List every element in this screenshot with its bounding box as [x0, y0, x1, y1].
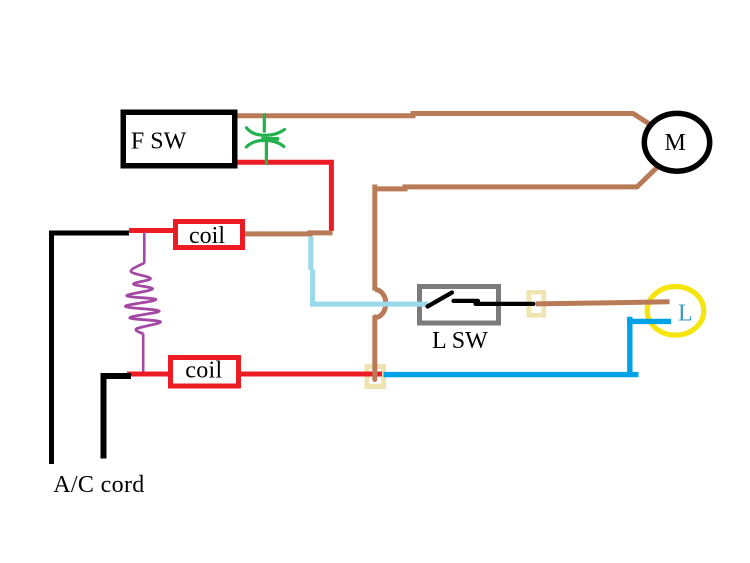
wire brown: hop bottom down into junction node	[372, 317, 377, 380]
junction node (tan square) joining red, brown and blue wires	[367, 367, 384, 387]
wire red: coil 2 to junction node	[239, 372, 382, 377]
wire lightblue: tap from coil1 lead down and right to L SW	[308, 236, 313, 270]
svg-text:L: L	[678, 301, 693, 327]
green fan symbol: vertical top segment	[263, 115, 266, 132]
wire brown: hop (no-connection bump) over light blue wire	[375, 290, 386, 318]
wire brown: middle vertical run down to hop	[372, 185, 377, 291]
green fan symbol: middle bar	[263, 137, 278, 141]
wire lightblue: vertical lower segment (slight jog)	[310, 270, 315, 307]
svg-text:coil: coil	[189, 223, 225, 249]
wire red: AC black lead to coil 2	[127, 372, 170, 377]
wire black: A/C cord outer lead	[52, 233, 130, 464]
svg-text:L SW: L SW	[432, 328, 488, 354]
svg-text:coil: coil	[185, 358, 222, 384]
svg-text:M: M	[665, 130, 686, 156]
wire blue: vertical riser	[627, 317, 632, 377]
wire red: AC black lead to coil 1	[129, 228, 175, 233]
coil 2 box (red)	[171, 358, 239, 387]
motor M circle (black)	[644, 113, 709, 171]
purple wire: lower lead from inductor scribble	[142, 334, 145, 372]
wire black: A/C cord inner lead	[104, 376, 132, 459]
switch contact wire black to terminal node	[454, 301, 534, 304]
wire brown: motor M down-left diagonal and middle horizontal run	[375, 166, 659, 189]
wire brown: L SW terminal to lamp L	[536, 302, 670, 304]
green fan symbol: vertical bottom segment	[265, 139, 268, 164]
wire red: F SW output down to coil 1 lead corner	[237, 162, 331, 231]
terminal node (tan square) at L SW output	[529, 292, 544, 315]
svg-text:F SW: F SW	[131, 129, 187, 155]
green fan symbol: upper curved stroke	[247, 128, 285, 136]
wire blue: top stub into lamp L	[627, 319, 671, 324]
lamp L circle (yellow)	[647, 287, 704, 336]
inductor coil scribble (purple)	[125, 263, 160, 334]
lamp switch box L SW	[420, 287, 499, 324]
fan switch box F SW (black)	[123, 112, 235, 166]
switch lever (black) inside L SW	[428, 293, 453, 307]
green fan symbol: lower curved stroke	[246, 140, 283, 147]
coil 1 box (red)	[176, 222, 243, 248]
wire lightblue: horizontal run into L SW	[310, 302, 429, 307]
wire blue: junction node to lamp L (bottom run)	[384, 372, 639, 377]
purple wire: upper lead to inductor scribble	[143, 232, 146, 264]
wire brown: F SW to motor M (top run)	[236, 114, 651, 126]
svg-text:A/C cord: A/C cord	[53, 472, 144, 498]
wire brown: coil 1 to red wire corner	[244, 233, 333, 234]
